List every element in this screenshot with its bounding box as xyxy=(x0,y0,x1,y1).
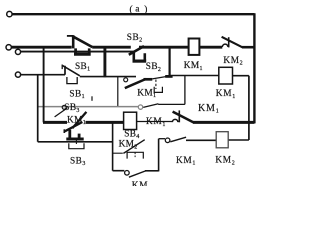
svg-text:(: ( xyxy=(130,4,133,15)
svg-text:): ) xyxy=(144,4,147,15)
svg-text:KM: KM xyxy=(132,181,148,186)
svg-text:a: a xyxy=(135,4,139,14)
